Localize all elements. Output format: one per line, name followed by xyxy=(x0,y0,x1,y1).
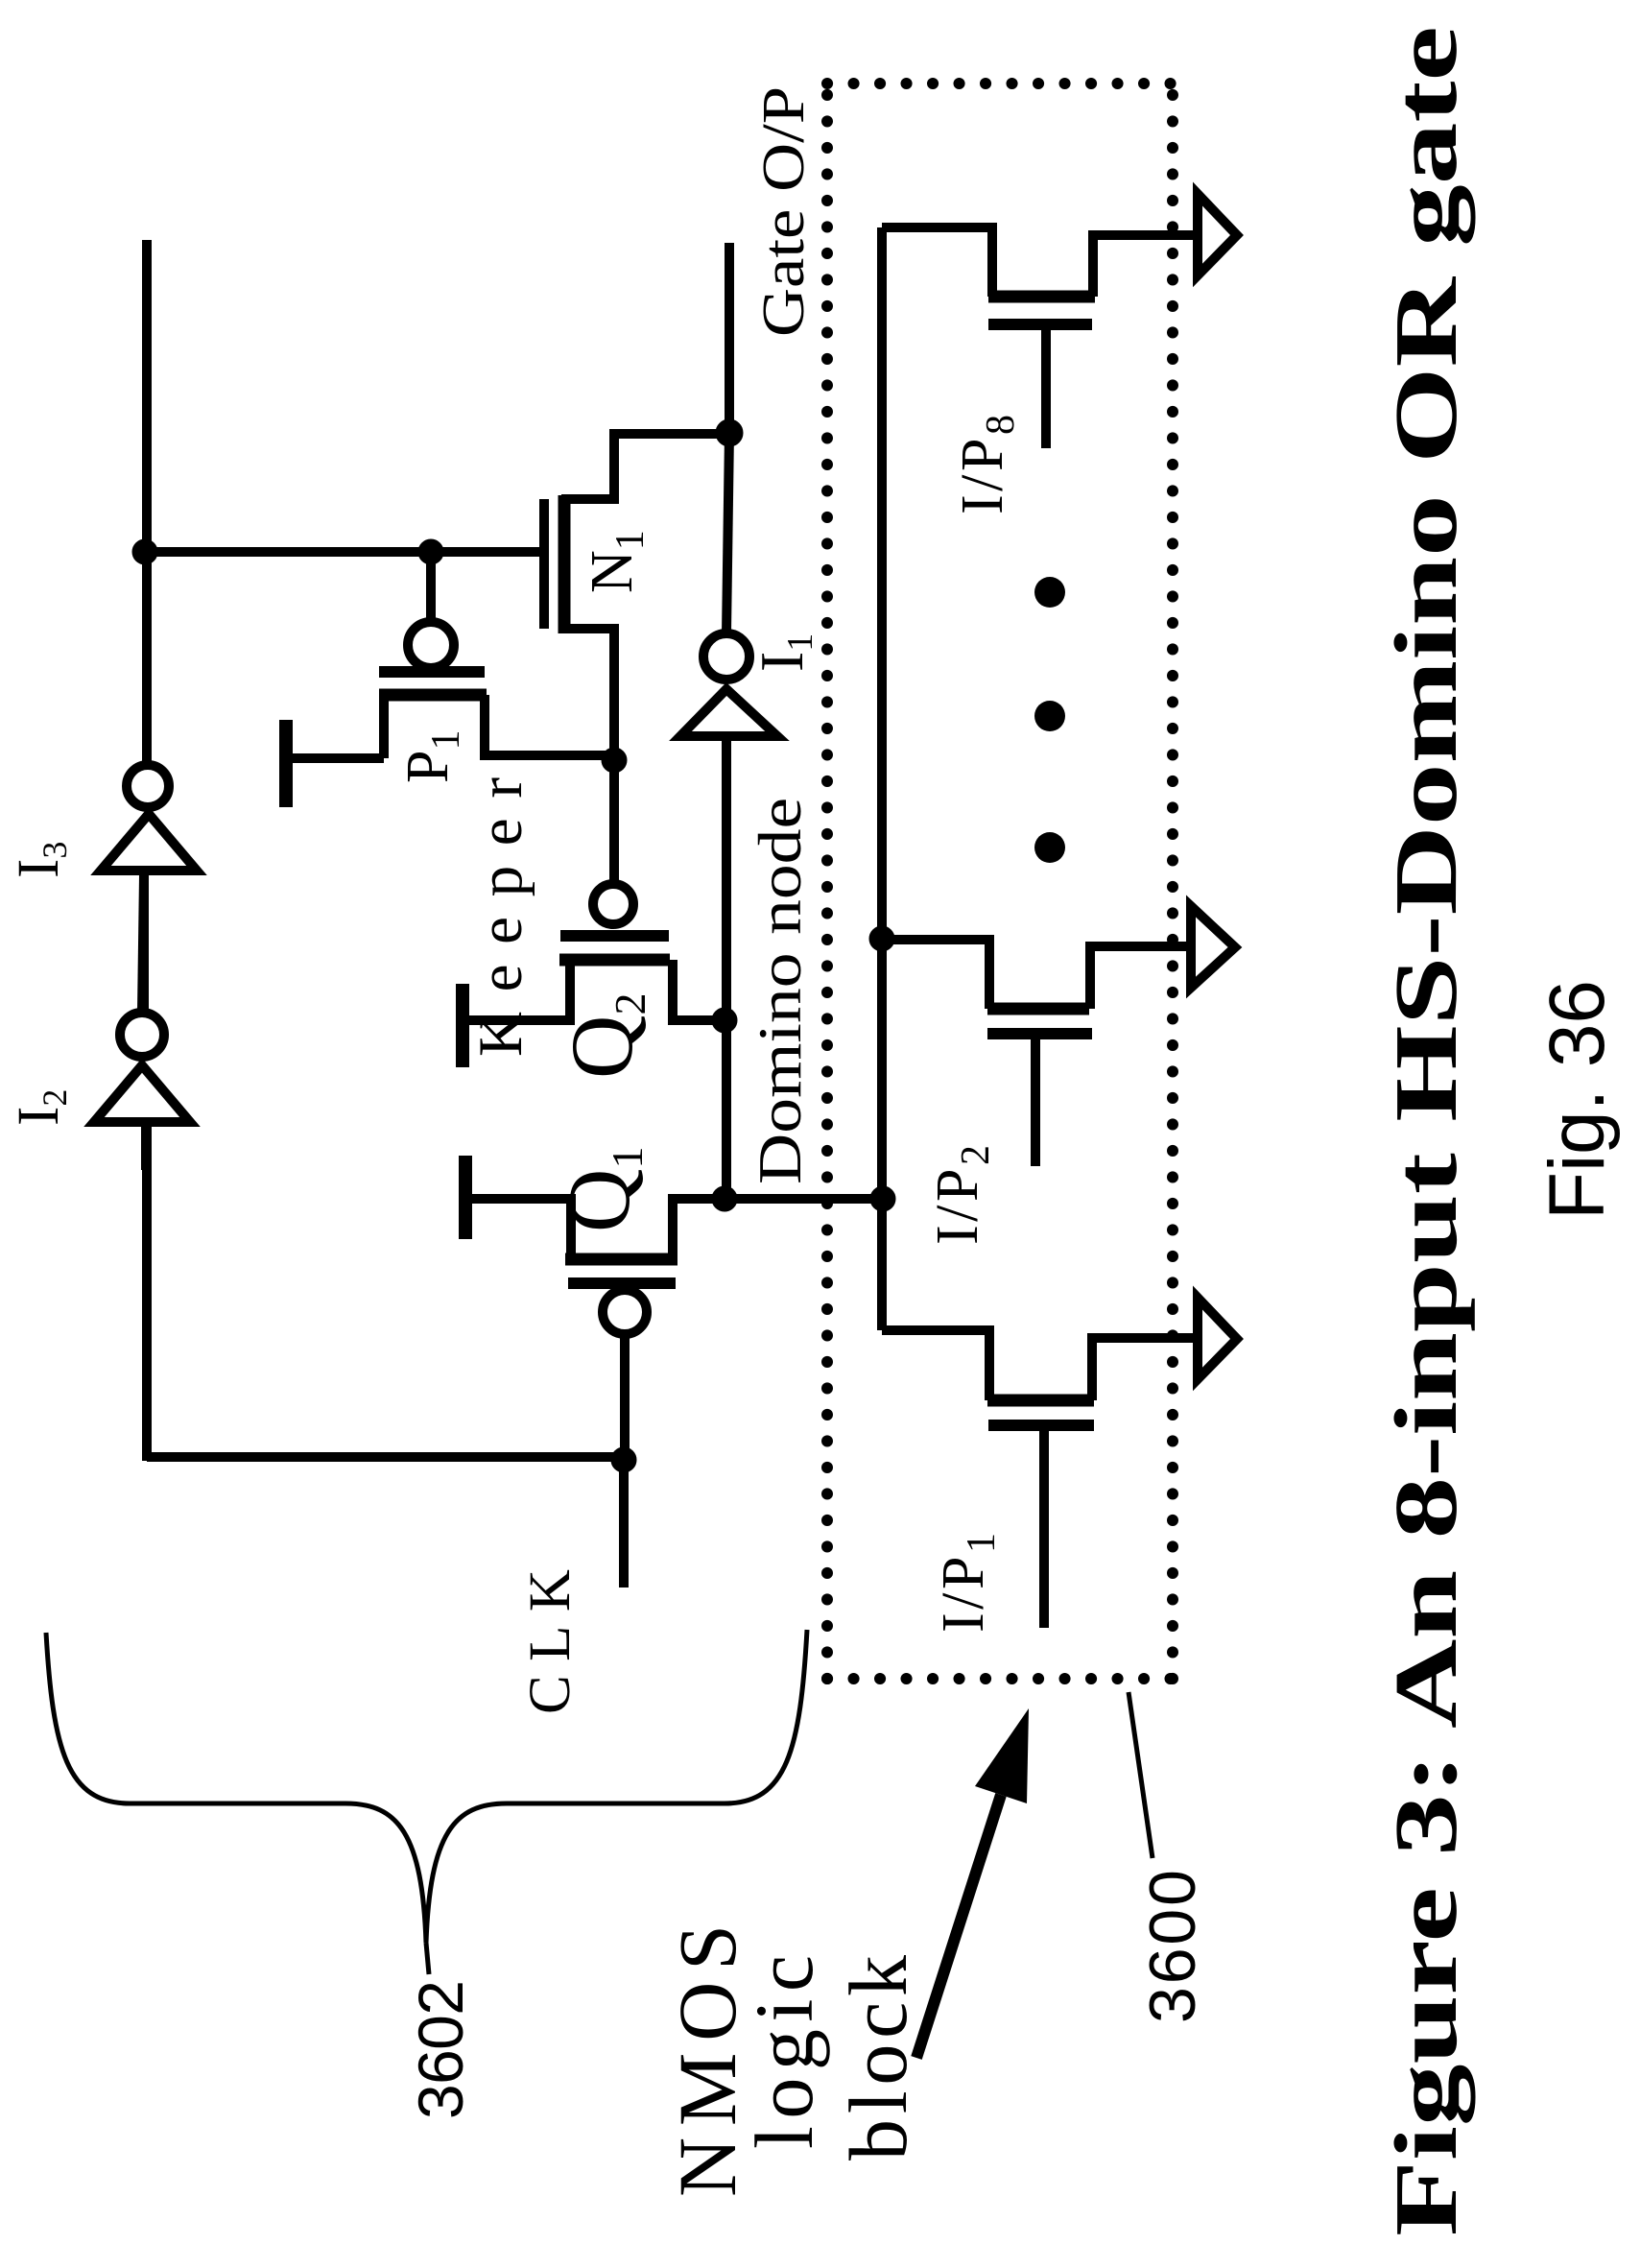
wire P1 source lead xyxy=(379,695,389,758)
transistor Q2 PMOS keeper xyxy=(559,884,670,960)
svg-text:Keeper: Keeper xyxy=(466,777,535,1057)
svg-text:CLK: CLK xyxy=(518,1569,582,1714)
wire domino rail xyxy=(722,740,731,1199)
node J9 junction dot bus / IP2 drain riser xyxy=(869,926,894,951)
wire Gate O/P line xyxy=(725,243,734,433)
leader tick brace cusp to 3602 xyxy=(426,1943,429,1974)
wire P1 gate stub xyxy=(426,552,436,621)
wire keeper node to Q2 gate bubble xyxy=(609,762,619,882)
node J3 junction dot CLK / Q1 gate xyxy=(611,1447,636,1472)
wire NMOS drain bus xyxy=(877,227,887,1330)
transistor Q1 PMOS precharge xyxy=(565,1259,677,1334)
wire clock rail segment 3 (after I3 to dead end) xyxy=(142,240,152,765)
wire clock rail segment 1 xyxy=(142,1127,152,1461)
node J1 junction dot clock rail / gate drop xyxy=(132,539,157,564)
output arrow for IP1 xyxy=(1198,1298,1237,1379)
power T3 VDD bar for Q2 xyxy=(456,984,469,1067)
svg-text:3602: 3602 xyxy=(405,1980,476,2119)
svg-text:Gate O/P: Gate O/P xyxy=(751,86,817,337)
leader line 3600 to dotted box xyxy=(1129,1692,1153,1858)
svg-text:block: block xyxy=(832,1955,924,2161)
brace 3602 grouping clock buffer circuit xyxy=(46,1630,807,1943)
wire keeper node to N1 source xyxy=(561,629,614,760)
transistor IP2 NMOS input 2 xyxy=(882,940,1193,1166)
inverter I3 xyxy=(101,765,197,871)
wire Q1 source lead up to T2 xyxy=(469,1199,571,1259)
wire Q1 gate stub xyxy=(620,1335,630,1460)
svg-text:Fig. 36: Fig. 36 xyxy=(1533,980,1621,1220)
node J2 junction dot on gate drop at P1 stub xyxy=(418,539,443,564)
dotted box NMOS logic block border xyxy=(827,84,1173,1679)
wire gate drop to N1 and P1 xyxy=(147,547,540,557)
ellipsis dots between IP2 and IP8 xyxy=(1034,577,1065,863)
node J5 junction dot I1 output / N1 drain / Gate O/P xyxy=(716,419,743,446)
wire Q1 drain lead and riser to NMOS drain bus xyxy=(673,1199,883,1259)
wire CLK input stub xyxy=(619,1460,629,1588)
output arrow for IP8 xyxy=(1198,194,1237,275)
wire clock rail segment 2 (between inverters I2 and I3) xyxy=(139,875,149,1013)
inverter I2 xyxy=(94,875,190,1170)
wire Q2 source lead up to T3 xyxy=(466,960,570,1020)
node J4 keeper junction dot xyxy=(602,748,627,773)
svg-text:Domino node: Domino node xyxy=(747,798,814,1184)
wire P1 drain to keeper node xyxy=(485,695,614,755)
arrow NMOS logic block pointer xyxy=(916,1708,1029,2058)
output arrow for IP2 xyxy=(1191,906,1235,988)
transistor N1 NMOS xyxy=(544,495,564,633)
transistor IP1 NMOS input 1 xyxy=(882,1330,1200,1628)
wire Q2 drain lead to domino rail xyxy=(673,960,725,1020)
inverter I1 domino output xyxy=(680,433,777,736)
node J8 junction dot riser / drain bus xyxy=(870,1186,895,1211)
transistor IP8 NMOS input 8 xyxy=(882,227,1200,448)
wire N1 drain to gate output node xyxy=(561,434,725,499)
transistor P1 PMOS xyxy=(379,622,487,695)
power T1 VDD bar for P1 xyxy=(286,720,384,807)
power T2 VDD bar for Q1 xyxy=(459,1156,472,1239)
svg-text:Figure 3: An 8-input HS-Domi: Figure 3: An 8-input HS-Domino OR gate xyxy=(1377,26,1475,2236)
node J6 junction dot domino rail left / Q1 drain riser xyxy=(712,1186,737,1211)
wire CLK riser to clock rail xyxy=(147,1457,624,1460)
node J7 junction dot domino rail / Q2 drain xyxy=(712,1008,737,1033)
